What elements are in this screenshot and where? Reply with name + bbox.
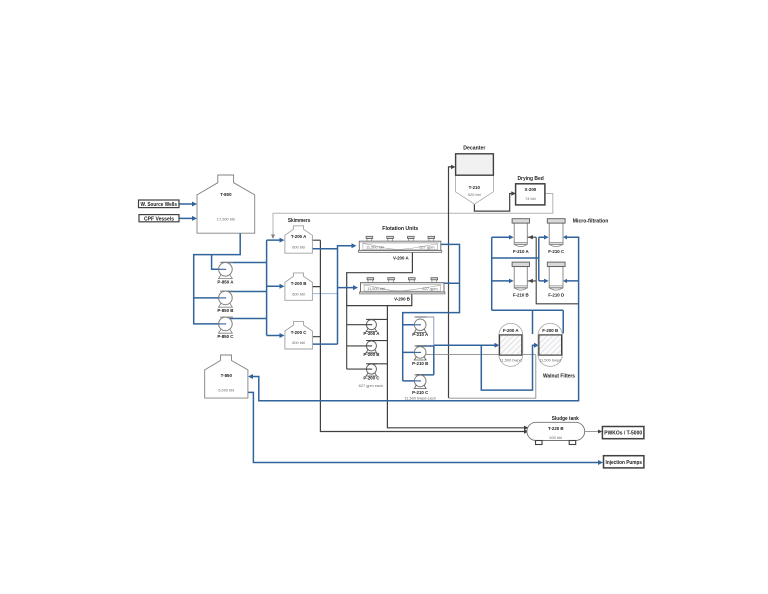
wire: drying-bed overflow return to skimmer feed (light gray)	[273, 194, 553, 236]
svg-text:W. Source Wells: W. Source Wells	[141, 202, 178, 208]
wire: P-210 discharge header to walnut filters (blue)	[417, 345, 536, 390]
arrow: backwash into F-210B right port	[528, 279, 533, 283]
skimmer T-200A	[285, 226, 313, 253]
arrow: into walnut filter F-200A	[495, 343, 500, 348]
arrow: into F-210B	[509, 279, 514, 284]
micro-filter F-210A	[512, 219, 529, 255]
svg-text:T-220 B: T-220 B	[548, 426, 564, 431]
svg-text:T-800: T-800	[220, 192, 232, 197]
wire: flotation V-200A bottom drain loop around V-200B (dark)	[347, 252, 413, 306]
svg-text:T-200 C: T-200 C	[291, 330, 307, 335]
pump P-210A	[412, 317, 429, 337]
arrow: into decanter	[451, 165, 456, 169]
svg-text:P-200 C: P-200 C	[363, 375, 380, 380]
sludge tank T-220B	[527, 422, 585, 444]
arrow: sludge line into sludge tank (lower)	[524, 429, 529, 433]
node: output box PWKOs / T-5000	[602, 427, 644, 439]
svg-text:P-850 A: P-850 A	[217, 279, 234, 284]
arrow: into F-210D	[544, 279, 549, 284]
wire: micro-filtration treated water manifold to T-850 (blue)	[252, 237, 579, 401]
svg-text:600 bbl: 600 bbl	[292, 340, 305, 345]
wire: walnut filter outlets to micro-filtration feed (blue)	[492, 237, 564, 334]
svg-text:P-200 B: P-200 B	[363, 352, 379, 357]
svg-text:11,500 bwpd each: 11,500 bwpd each	[404, 396, 436, 401]
arrow: return line down onto skimmer feed	[271, 235, 275, 240]
arrow: manifold into F-210C right	[563, 235, 567, 239]
wire: skimmer drain headers to sludge manifold (dark)	[312, 240, 524, 431]
arrow: into flotation V-200B	[353, 285, 358, 290]
svg-text:Injection Pumps: Injection Pumps	[606, 460, 643, 466]
svg-text:Flotation Units: Flotation Units	[382, 226, 418, 232]
wire: skimmer feed manifold (blue)	[267, 240, 280, 335]
svg-text:F-210 A: F-210 A	[513, 249, 530, 254]
svg-text:F-200 A: F-200 A	[503, 328, 520, 333]
wire: CPF Vessels feed to T-800 (blue)	[179, 217, 193, 219]
wire: skimmer outlet manifold to flotation feed (blue)	[312, 246, 353, 344]
svg-text:Decanter: Decanter	[463, 145, 486, 151]
wire: micro-filtration backwash collection (dark)	[527, 237, 578, 304]
tank T-800	[197, 175, 255, 233]
svg-text:F-210 B: F-210 B	[513, 293, 529, 298]
wire: T-850 outlet to injection pumps (blue)	[248, 392, 599, 462]
svg-text:P-200 A: P-200 A	[363, 331, 380, 336]
arrow: backwash into F-210A right port	[528, 235, 533, 239]
svg-text:11,500 bwpd: 11,500 bwpd	[539, 358, 561, 363]
svg-text:P-210 C: P-210 C	[412, 390, 429, 395]
wire: flotation sludge drop line to sludge tank (dark)	[387, 306, 524, 428]
svg-text:T-850: T-850	[221, 373, 233, 378]
svg-text:17,500 bbl: 17,500 bbl	[217, 217, 235, 222]
svg-text:Walnut Filters: Walnut Filters	[543, 373, 575, 379]
wire: P-850 discharge header (blue)	[222, 263, 267, 319]
wire: walnut filter backwash drain (thin gray)	[426, 355, 536, 399]
node: output box Injection Pumps	[604, 456, 644, 468]
svg-text:500 bbl: 500 bbl	[549, 435, 562, 440]
pump P-850C	[217, 317, 234, 339]
arrow: into skimmer T-200B	[280, 284, 285, 289]
micro-filter F-210D	[547, 262, 565, 297]
svg-text:CPF Vessels: CPF Vessels	[144, 216, 174, 222]
wire: micro-filtration feed branches (blue)	[492, 237, 545, 281]
svg-text:F-200 B: F-200 B	[542, 328, 558, 333]
skimmer T-200B	[285, 273, 313, 300]
pump P-850A	[217, 263, 234, 285]
svg-text:5,000 bbl: 5,000 bbl	[218, 388, 234, 393]
svg-text:627 gpm: 627 gpm	[423, 286, 438, 291]
wire: P-200 pump discharge header (dark)	[368, 319, 388, 363]
drying bed X-200	[516, 184, 545, 205]
wire: P-200 pump suction manifold (dark)	[347, 305, 372, 369]
svg-text:P-210 B: P-210 B	[412, 361, 428, 366]
pump P-200A	[363, 319, 380, 336]
svg-text:520 bbl: 520 bbl	[468, 192, 481, 197]
svg-text:P-850 C: P-850 C	[217, 334, 234, 339]
arrow: into skimmer T-200A	[280, 238, 285, 243]
svg-text:P-210 A: P-210 A	[412, 332, 429, 337]
tank T-850	[205, 355, 248, 398]
arrow: into Injection Pumps box	[598, 460, 603, 465]
svg-text:PWKOs / T-5000: PWKOs / T-5000	[604, 431, 642, 437]
wire: decanter underflow to drying bed (dark)	[474, 194, 511, 212]
arrow: into F-210A	[509, 235, 514, 240]
svg-text:11,500 bbl: 11,500 bbl	[367, 286, 385, 291]
arrow: sludge line into sludge tank (upper)	[524, 426, 529, 430]
micro-filter F-210B	[512, 262, 529, 297]
arrow: into skimmer T-200C	[280, 333, 285, 338]
pump P-210C	[412, 375, 429, 395]
flotation unit V-200A	[358, 236, 441, 260]
svg-text:11,500 bwpd: 11,500 bwpd	[500, 358, 522, 363]
svg-text:Skimmers: Skimmers	[288, 218, 311, 224]
svg-text:T-200 B: T-200 B	[291, 281, 307, 286]
wire: flotation effluent loop to P-210 suction (blue)	[403, 244, 460, 381]
svg-text:P-850 B: P-850 B	[217, 308, 233, 313]
skimmer T-200C	[285, 322, 313, 349]
arrow: manifold into F-210D right	[563, 279, 567, 283]
walnut filter F-200A	[499, 323, 523, 366]
arrow: into T-800 lower	[192, 216, 197, 221]
svg-text:627 gpm: 627 gpm	[419, 245, 434, 250]
arrow: treated water into T-850	[248, 374, 253, 379]
micro-filter F-210C	[547, 219, 565, 255]
svg-text:T-210: T-210	[469, 185, 481, 190]
svg-text:X-200: X-200	[525, 187, 537, 192]
wire: skimmer T-200B pale outlet to flotation manifold	[312, 293, 337, 295]
decanter T-210	[456, 154, 494, 204]
wire: P-210A discharge (thin gray)	[417, 317, 434, 345]
arrow: into flotation V-200A	[352, 243, 357, 248]
arrow: into F-210C	[544, 235, 549, 240]
node: source box CPF Vessels	[139, 215, 179, 223]
flotation unit V-200B	[360, 278, 445, 302]
arrow: into PWKOs box	[598, 430, 602, 434]
node: source box W. Source Wells	[139, 200, 180, 208]
svg-text:600 bbl: 600 bbl	[292, 291, 305, 296]
svg-text:600 bbl: 600 bbl	[292, 244, 305, 249]
svg-text:Sludge tank: Sludge tank	[552, 416, 580, 422]
pump P-850B	[217, 291, 233, 313]
svg-text:11,500 bbl: 11,500 bbl	[366, 245, 384, 250]
wire: W. Source Wells feed to T-800 (blue)	[179, 203, 193, 205]
svg-text:627 gpm each: 627 gpm each	[359, 383, 384, 388]
wire: sludge tank outlet to PWKOs (thin gray)	[585, 431, 599, 433]
wire: T-800 outlet to P-850 suction manifold (blue)	[194, 233, 241, 324]
pump P-210B	[412, 346, 428, 366]
arrow: into walnut filter F-200B	[534, 343, 539, 348]
svg-text:T-200 A: T-200 A	[291, 234, 307, 239]
wire: decanter feed riser (dark)	[449, 167, 452, 398]
svg-text:Micro-filtration: Micro-filtration	[573, 219, 609, 225]
pump P-200B	[363, 341, 379, 358]
arrow: into drying bed	[511, 191, 516, 195]
pump P-200C	[363, 364, 380, 381]
walnut filter F-200B	[538, 323, 562, 366]
svg-text:74 bbl: 74 bbl	[525, 196, 536, 201]
arrow: into T-800 upper	[192, 202, 197, 207]
svg-text:F-210 D: F-210 D	[548, 293, 564, 298]
svg-text:V-200 B: V-200 B	[394, 297, 410, 302]
svg-text:F-210 C: F-210 C	[548, 249, 565, 254]
svg-text:Drying Bed: Drying Bed	[518, 176, 545, 182]
svg-text:V-200 A: V-200 A	[393, 255, 410, 260]
